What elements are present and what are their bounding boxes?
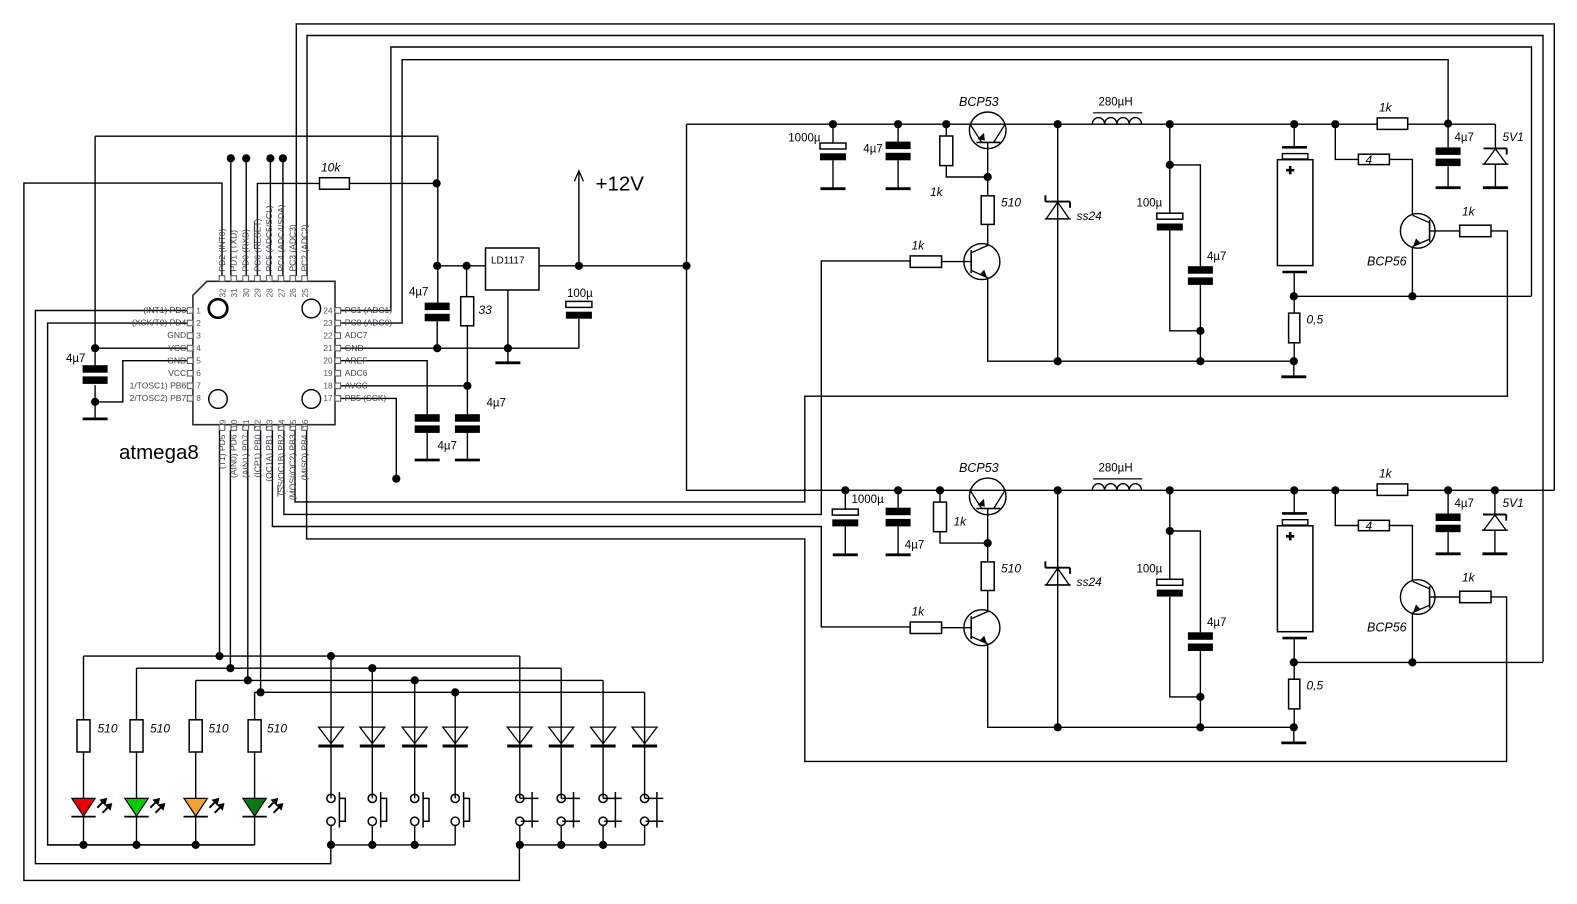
diode D2A <box>360 727 385 744</box>
wire pin27 stub <box>282 158 284 275</box>
wire LED1 cathode lead <box>83 817 85 845</box>
svg-text:26: 26 <box>288 288 298 298</box>
svg-text:1: 1 <box>196 305 201 315</box>
wire select row 1 <box>84 655 520 657</box>
svg-text:4: 4 <box>1366 519 1373 533</box>
wire LED drive PD7 <box>247 430 249 680</box>
wire LED drive PD6 <box>229 430 231 668</box>
wire 33R top lead <box>466 266 468 297</box>
svg-text:(INT1) PD3: (INT1) PD3 <box>143 305 186 315</box>
node rail/ss24 (section 1) <box>1054 120 1062 128</box>
svg-text:12: 12 <box>253 419 263 429</box>
svg-text:280µH: 280µH <box>1099 463 1133 475</box>
wire colA3 lower <box>414 825 416 845</box>
node led row node 136.5 <box>132 841 140 849</box>
wire colA3 upper <box>414 680 416 798</box>
wire battery top lead (section 1) <box>1293 124 1295 147</box>
node 0.5/gnd junction (section 1) <box>1290 357 1298 365</box>
node pin28 stub end <box>266 154 274 162</box>
wire LED drive PB0 <box>260 430 262 692</box>
inductor 280uH (section 1) <box>1092 118 1141 125</box>
wire 4ohm to collector (section 2) <box>1389 526 1412 582</box>
wire LD1117 output row <box>437 265 485 267</box>
resistor 510 (R510 (section 2)) <box>981 562 994 591</box>
wire colB1 lower <box>519 825 521 845</box>
svg-text:VCC: VCC <box>168 368 186 378</box>
svg-text:1k: 1k <box>1379 101 1393 115</box>
svg-text:GND: GND <box>167 355 186 365</box>
node row1/button junction <box>327 652 335 660</box>
wire select row 2 <box>137 667 562 669</box>
resistor 1k (R1k-out (section 1)) <box>1377 118 1408 129</box>
wire PC3/ADC3 bus to section2 rail <box>296 24 1554 490</box>
node rail/4u7 (section 1) <box>894 120 902 128</box>
svg-text:(SS/OC1B) PB2: (SS/OC1B) PB2 <box>276 434 286 495</box>
wire PD3 net: pin1 to button group A <box>35 311 330 864</box>
svg-text:(ICP1) PB0: (ICP1) PB0 <box>252 434 262 477</box>
wire 5V1 lead s2 <box>1494 490 1496 514</box>
node rail/4ohm (section 1) <box>1331 120 1339 128</box>
pushbutton S2 <box>368 794 376 802</box>
wire NPN emitter to gnd row (section 1) <box>988 278 1294 361</box>
wire buttonA common row <box>331 844 455 846</box>
svg-text:5: 5 <box>196 356 201 366</box>
svg-text:4µ7: 4µ7 <box>1455 498 1474 510</box>
node 12V arrow junction <box>575 262 583 270</box>
battery cell cell (section 1) <box>1282 146 1307 149</box>
capacitor 4u7 (Cout-right (section 2)) <box>1436 514 1461 522</box>
switch contact J2 <box>557 794 565 802</box>
svg-text:1k: 1k <box>1462 205 1476 219</box>
wire 100u top lead (section 1) <box>1169 124 1171 213</box>
diode D1B <box>507 727 532 744</box>
svg-text:14: 14 <box>276 419 286 429</box>
node emitter/sense junction (section 2) <box>1408 658 1416 666</box>
node 10k/5V junction <box>433 179 441 187</box>
svg-text:28: 28 <box>265 288 275 298</box>
transistor BCP53 (section 1) (PNP) <box>969 112 1006 149</box>
resistor 1k (R1k-pull (section 2)) <box>934 502 947 532</box>
svg-text:1/TOSC1) PB6: 1/TOSC1) PB6 <box>130 380 187 390</box>
wire colB4 upper <box>644 692 646 798</box>
svg-text:4: 4 <box>196 343 201 353</box>
wire LED2 anode lead <box>136 752 138 798</box>
wire colA2 lower <box>371 825 373 845</box>
svg-text:7: 7 <box>196 381 201 391</box>
svg-text:4µ7: 4µ7 <box>905 540 924 552</box>
capacitor 4u7 (Cout4u7 (section 1)) <box>1188 266 1213 274</box>
svg-text:2/TOSC2) PB7: 2/TOSC2) PB7 <box>130 393 187 403</box>
svg-text:1k: 1k <box>1379 467 1393 481</box>
svg-text:510: 510 <box>267 722 287 736</box>
wire LD1117 gnd lead <box>507 290 509 348</box>
wire colB3 lower <box>602 825 604 845</box>
switch contact J1 <box>516 794 524 802</box>
svg-text:(MISO) PB4: (MISO) PB4 <box>300 434 310 480</box>
wire colB3 upper <box>602 680 604 798</box>
wire PB5/SCK pin17 stub <box>341 398 397 478</box>
wire sense row (section 1) <box>1294 295 1532 297</box>
wire pin31 stub <box>230 158 232 275</box>
wire 1k top lead (section 2) <box>939 490 941 502</box>
resistor 510 (R-led3) <box>189 720 202 752</box>
svg-text:4µ7: 4µ7 <box>66 353 85 365</box>
ground 1000u (section 1) <box>821 187 846 190</box>
wire AREF pin20 to cap <box>341 361 428 415</box>
resistor 0,5 (R0.5 (section 2)) <box>1289 679 1300 709</box>
svg-text:29: 29 <box>253 288 263 298</box>
wire LED cathode dots row <box>48 844 255 846</box>
node rail/battery (section 1) <box>1290 120 1298 128</box>
wire 4ohm branch (section 1) <box>1335 124 1358 159</box>
resistor 510 (R-led4) <box>248 720 261 752</box>
wire 4ohm branch (section 2) <box>1335 490 1358 525</box>
battery cell cell (section 2) <box>1282 512 1307 515</box>
svg-text:21: 21 <box>323 343 333 353</box>
node ss24/gnd (section 1) <box>1054 357 1062 365</box>
svg-text:4µ7: 4µ7 <box>1207 617 1226 629</box>
wire PD2/INT0 net: pin32 to button group B <box>24 183 520 880</box>
wire out 4u7 lead (section 1) <box>1447 124 1449 147</box>
wire out 4u7 gnd lead (section 2) <box>1447 532 1449 552</box>
wire select row 4 <box>255 691 645 693</box>
svg-text:PC2 (ADC2): PC2 (ADC2) <box>300 224 310 271</box>
svg-text:19: 19 <box>323 368 333 378</box>
svg-text:4: 4 <box>1366 153 1373 167</box>
wire 10k to 5V node <box>349 182 436 184</box>
node btnA row node 414.7 <box>411 841 419 849</box>
wire 5V top distribution <box>95 136 438 302</box>
resistor 1k (R1k-b56 (section 2)) <box>1460 591 1491 603</box>
wire LED4 cathode lead <box>254 817 256 845</box>
svg-text:(MOSI/OC2) PB3: (MOSI/OC2) PB3 <box>288 434 298 500</box>
wire BCP56 base lead (section 1) <box>1430 230 1460 232</box>
node 100u/4u7 branch (section 2) <box>1166 527 1174 535</box>
node btnB row node 603.1 <box>599 841 607 849</box>
svg-text:1k: 1k <box>912 239 926 253</box>
node led row node 83.5 <box>79 841 87 849</box>
polarized capacitor 100u (C-12v) <box>566 301 592 307</box>
node rail/100u (section 2) <box>1166 486 1174 494</box>
wire 4u7 gnd lead (section 2) <box>897 526 899 553</box>
wire 1k top lead (section 1) <box>945 124 947 136</box>
wire battery top lead (section 2) <box>1293 490 1295 513</box>
svg-text:0,5: 0,5 <box>1307 313 1324 327</box>
wire LED3 anode lead <box>195 752 197 798</box>
wire 100u bottom lead (section 1) <box>1170 231 1201 331</box>
wire colA4 lower <box>454 825 456 845</box>
node btnA row node 372.3 <box>368 841 376 849</box>
zener diode 5V1 (section 1) <box>1484 147 1507 149</box>
wire ss24 branch (section 1) <box>1057 124 1059 361</box>
svg-text:PC6 (RESET): PC6 (RESET) <box>252 218 262 271</box>
svg-text:18: 18 <box>323 381 333 391</box>
schottky diode ss24 (section 1) <box>1045 201 1070 203</box>
svg-text:(T1) PD5: (T1) PD5 <box>217 434 227 469</box>
svg-text:GND: GND <box>167 330 186 340</box>
node 4u7/gnd junction (section 1) <box>1196 357 1204 365</box>
capacitor 4u7 (C-5v) <box>425 303 450 311</box>
wire C-12v bottom lead <box>578 319 580 348</box>
wire 1000u top lead (section 1) <box>832 124 834 143</box>
diode D4B <box>632 727 657 744</box>
svg-text:PC0 (ADC0): PC0 (ADC0) <box>345 318 392 328</box>
wire NPN emitter to gnd row (section 2) <box>988 644 1294 727</box>
node pin27 stub end <box>279 154 287 162</box>
resistor 1k (R1k-base (section 2)) <box>910 622 941 634</box>
wire PB3 route to section1 feedback <box>295 231 1507 502</box>
svg-text:AREF: AREF <box>345 355 368 365</box>
ground zener (section 1) <box>1483 186 1508 189</box>
svg-text:11: 11 <box>241 419 251 428</box>
svg-text:9: 9 <box>217 419 227 424</box>
microcontroller IC atmega8 (TQFP32) <box>193 281 335 424</box>
svg-text:30: 30 <box>241 288 251 298</box>
wire 510 bottom lead (section 1) <box>987 224 989 246</box>
wire colA4 upper <box>454 692 456 798</box>
ground out 4u7 (section 2) <box>1436 552 1461 555</box>
svg-text:10: 10 <box>229 419 239 429</box>
svg-text:100µ: 100µ <box>1137 198 1163 210</box>
svg-text:22: 22 <box>323 331 333 341</box>
wire 510 top lead (section 1) <box>987 177 989 196</box>
wire LED2 resistor lead <box>136 668 138 720</box>
wire 510 top lead (section 2) <box>987 543 989 562</box>
pushbutton S4 <box>451 794 459 802</box>
ground 4u7 in (section 1) <box>886 187 911 190</box>
wire branch to 4u7 (section 1) <box>1170 165 1201 266</box>
node row2/pin junction <box>226 664 234 672</box>
svg-text:GND: GND <box>345 343 364 353</box>
capacitor 4u7 (Cin4u7 (section 2)) <box>886 508 911 516</box>
node rail/4u7 (section 2) <box>894 486 902 494</box>
wire LED1 resistor lead <box>83 656 85 720</box>
node btnB row node 561.2 <box>557 841 565 849</box>
wire PB1/OC1A route to section2 driver base <box>272 430 910 627</box>
node emitter/sense junction (section 1) <box>1408 292 1416 300</box>
wire 0.5 top lead (section 1) <box>1293 296 1295 313</box>
node rail/1k (section 1) <box>942 120 950 128</box>
svg-text:4µ7: 4µ7 <box>863 144 882 156</box>
wire BCP56 emitter lead (section 1) <box>1411 247 1413 297</box>
LED LED1 <box>72 798 95 816</box>
wire 4u7 bottom lead (section 1) <box>1199 285 1201 361</box>
svg-text:13: 13 <box>265 419 275 429</box>
wire cap to gnd stub <box>94 385 96 418</box>
svg-text:510: 510 <box>1001 562 1021 576</box>
ground 4u7 in (section 2) <box>886 553 911 556</box>
resistor 1k (R1k-out (section 2)) <box>1377 484 1408 496</box>
wire inductor overline (section 2) <box>1093 478 1142 480</box>
LED LED3 <box>184 798 207 816</box>
svg-text:4µ7: 4µ7 <box>1455 132 1474 144</box>
wire GND pin21 row <box>341 347 579 349</box>
wire BCP56 base lead (section 2) <box>1430 596 1460 598</box>
node battery/0.5 junction (section 2) <box>1290 658 1298 666</box>
SS overline <box>277 485 279 497</box>
node base node (section 2) <box>984 539 992 547</box>
svg-text:17: 17 <box>323 393 333 403</box>
node VCC/cap junction <box>91 344 99 352</box>
wire VCC pin4 to bypass cap <box>95 347 187 349</box>
svg-text:BCP53: BCP53 <box>959 461 999 475</box>
wire AVCC pin18 row <box>341 385 468 387</box>
wire select row 3 <box>196 679 603 681</box>
wire pin30 stub <box>245 158 247 275</box>
svg-text:4µ7: 4µ7 <box>409 287 428 299</box>
node btnA row node 331.0 <box>327 841 335 849</box>
node rail/1k (section 2) <box>936 486 944 494</box>
wire LED2 cathode lead <box>136 817 138 845</box>
wire 4u7 top lead (section 2) <box>897 490 899 507</box>
svg-text:23: 23 <box>323 318 333 328</box>
svg-text:ss24: ss24 <box>1077 209 1103 223</box>
wire 1k to base (section 1) <box>946 166 987 177</box>
node pin31 stub end <box>227 154 235 162</box>
wire LED4 anode lead <box>254 752 256 798</box>
wire LED3 cathode lead <box>195 817 197 845</box>
node row4/pin junction <box>257 688 265 696</box>
capacitor 4u7 (Cout-right (section 1)) <box>1436 147 1461 155</box>
svg-text:AVCC: AVCC <box>345 380 368 390</box>
svg-text:(AIN0) PD6: (AIN0) PD6 <box>229 434 239 478</box>
wire BCP53 base lead (section 1) <box>987 142 989 177</box>
node battery/0.5 junction (section 1) <box>1290 292 1298 300</box>
polarized capacitor 100u (Cout100u (section 1)) <box>1157 213 1183 219</box>
wire buttonB common row <box>519 844 644 846</box>
svg-text:atmega8: atmega8 <box>119 441 199 464</box>
polarized capacitor 100u (Cout100u (section 2)) <box>1157 579 1183 585</box>
wire 100u bottom lead (section 2) <box>1170 597 1201 697</box>
svg-text:100µ: 100µ <box>567 288 593 300</box>
svg-text:1k: 1k <box>912 605 926 619</box>
resistor 510 (R-led1) <box>77 720 90 752</box>
ground mcu left <box>83 417 108 420</box>
wire GND pin5 to bypass cap <box>95 361 187 402</box>
svg-text:3: 3 <box>196 331 201 341</box>
resistor 1k (R1k-b56 (section 1)) <box>1460 225 1491 237</box>
svg-text:33: 33 <box>479 303 493 317</box>
diode D4A <box>443 727 468 744</box>
wire 100u top lead (section 2) <box>1169 490 1171 579</box>
svg-text:5V1: 5V1 <box>1503 130 1524 144</box>
svg-text:10k: 10k <box>321 161 341 175</box>
svg-text:1k: 1k <box>954 515 968 529</box>
inductor 280uH (section 2) <box>1092 484 1141 491</box>
svg-text:BCP56: BCP56 <box>1367 255 1407 269</box>
wire inductor overline (section 1) <box>1093 112 1142 114</box>
svg-text:1k: 1k <box>1462 571 1476 585</box>
node 0.5/gnd junction (section 2) <box>1290 723 1298 731</box>
svg-text:1000µ: 1000µ <box>788 133 821 145</box>
svg-text:PC3 (ADC3): PC3 (ADC3) <box>288 224 298 271</box>
wire C-avcc gnd lead <box>466 433 468 459</box>
svg-text:PD2 (INT0): PD2 (INT0) <box>217 228 227 271</box>
wire colB1 upper <box>519 656 521 798</box>
capacitor 4u7 (C-avcc) <box>455 414 480 422</box>
svg-text:(XCK/T0) PD4: (XCK/T0) PD4 <box>132 318 187 328</box>
wire colA1 upper <box>330 656 332 798</box>
resistor 1k (R1k-base (section 1)) <box>910 256 941 268</box>
wire branch to 4u7 (section 2) <box>1170 531 1201 632</box>
resistor 33 (R-33) <box>461 297 474 326</box>
wire 5V1 lead <box>1494 124 1496 148</box>
resistor 1k (R1k-pull (section 1)) <box>940 136 953 166</box>
resistor 510 (R-led2) <box>130 720 143 752</box>
wire +12V bus / section rails <box>687 124 1555 490</box>
node rail/zener junction (section 2) <box>1491 486 1499 494</box>
wire PB4 route to section2 feedback <box>307 430 1507 761</box>
wire 1k to npn (section 2) <box>942 627 972 629</box>
wire PB2/OC1B route to section1 driver base <box>284 261 910 515</box>
node rail/ss24 (section 2) <box>1054 486 1062 494</box>
wire out 4u7 gnd lead (section 1) <box>1447 166 1449 186</box>
svg-text:(AIN1) PD7: (AIN1) PD7 <box>241 434 251 478</box>
svg-text:4µ7: 4µ7 <box>1207 251 1226 263</box>
svg-text:BCP56: BCP56 <box>1367 621 1407 635</box>
node AVCC junction <box>463 382 471 390</box>
wire cap to gnd row <box>436 321 438 349</box>
wire zener gnd lead (section 2) <box>1494 530 1496 552</box>
wire colA1 lower <box>330 825 332 845</box>
svg-text:6: 6 <box>196 368 201 378</box>
wire 0.5 top lead (section 2) <box>1293 662 1295 679</box>
svg-text:510: 510 <box>98 722 118 736</box>
LED LED4 <box>243 798 266 816</box>
svg-text:27: 27 <box>276 288 286 298</box>
polarized capacitor 1000u (C1000 (section 1)) <box>820 143 846 149</box>
node 5V/cap junction <box>433 262 441 270</box>
wire colA2 upper <box>371 668 373 798</box>
wire 510 bottom lead (section 2) <box>987 591 989 613</box>
wire 0.5 bottom lead (section 1) <box>1293 343 1295 361</box>
resistor 4 (R4 (section 1)) <box>1358 154 1389 164</box>
RESET overline <box>253 221 255 249</box>
zener diode 5V1 (section 2) <box>1483 514 1506 516</box>
capacitor 4u7 (C-aref) <box>415 414 440 422</box>
ground shunt (section 2) <box>1281 742 1306 745</box>
wire PD4 net: pin2 to LED cathode row <box>48 323 255 845</box>
node row3/pin junction <box>244 676 252 684</box>
node led row node 195.7 <box>192 841 200 849</box>
wire 4u7 top lead (section 1) <box>897 124 899 141</box>
diode D3B <box>591 727 616 744</box>
svg-text:32: 32 <box>217 288 227 298</box>
ground 1000u (section 2) <box>833 553 858 556</box>
pushbutton S3 <box>411 794 419 802</box>
node row2/button junction <box>368 664 376 672</box>
capacitor 4u7 (Cin4u7 (section 1)) <box>886 142 911 150</box>
LED LED2 <box>125 798 148 816</box>
svg-text:280µH: 280µH <box>1099 97 1133 109</box>
svg-text:4µ7: 4µ7 <box>487 398 506 410</box>
wire gnd stub (section 1) <box>1293 361 1295 375</box>
node 4u7/gnd junction (section 2) <box>1196 723 1204 731</box>
node GND/cap junction <box>91 398 99 406</box>
wire 5V left drop to VCC <box>94 136 96 365</box>
wire zener gnd lead (section 1) <box>1494 164 1496 186</box>
svg-text:VCC: VCC <box>168 343 186 353</box>
node LD gnd junction <box>504 344 512 352</box>
wire 1000u top lead (section 2) <box>844 490 846 509</box>
switch contact J3 <box>599 794 607 802</box>
transistor BCP56 (section 1) (NPN) <box>1400 214 1435 249</box>
node rail/4ohm (section 2) <box>1331 486 1339 494</box>
ground zener (section 2) <box>1482 552 1507 555</box>
node ss24/gnd (section 2) <box>1054 723 1062 731</box>
wire LED1 anode lead <box>83 752 85 798</box>
switch contact J4 <box>640 794 648 802</box>
